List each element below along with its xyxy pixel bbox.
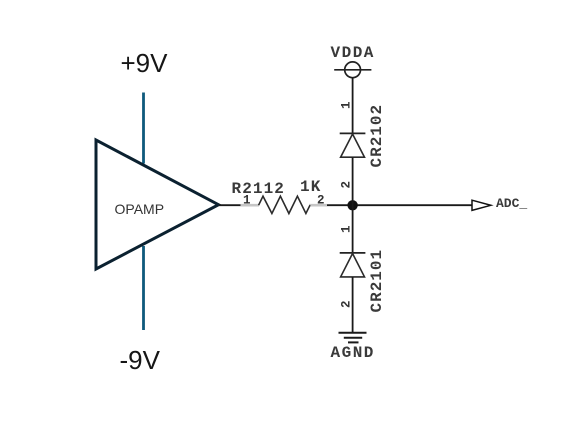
diode CR2101 pin number 1 — [340, 225, 354, 233]
op-amp U1 OPAMP — [96, 140, 219, 269]
resistor R2112 pin 2 stub — [309, 204, 327, 207]
resistor R2112 pin 1 stub — [241, 204, 260, 207]
wire node to ADC output arrow — [358, 204, 473, 206]
wire V+ supply to op-amp — [142, 93, 145, 164]
svg-text:+9V: +9V — [121, 48, 169, 78]
svg-text:1: 1 — [340, 101, 354, 109]
wire diode CR2102 anode to node — [352, 157, 354, 253]
ground symbol AGND — [339, 332, 367, 334]
diode CR2102 pin number 2 — [340, 181, 354, 189]
svg-text:2: 2 — [340, 181, 354, 189]
diode CR2102 pin number 1 — [340, 101, 354, 109]
svg-text:VDDA: VDDA — [331, 44, 375, 62]
svg-text:2: 2 — [340, 300, 354, 308]
diode CR2101 — [340, 252, 366, 254]
wire resistor R2112 pin 2 to node — [326, 204, 348, 206]
wire V- supply to op-amp — [142, 246, 145, 330]
wire diode CR2101 anode to ground — [352, 277, 354, 333]
svg-text:ADC_: ADC_ — [496, 196, 527, 211]
diode reference label CR2101 — [368, 249, 386, 313]
power symbol VDDA — [345, 62, 361, 78]
diode reference label CR2102 — [368, 104, 386, 168]
svg-text:1: 1 — [340, 225, 354, 233]
ADC output arrow — [472, 200, 491, 210]
svg-text:CR2101: CR2101 — [368, 249, 386, 313]
wire op-amp output to resistor R2112 pin 1 — [219, 204, 242, 206]
svg-text:2: 2 — [317, 194, 325, 208]
svg-text:CR2102: CR2102 — [368, 104, 386, 168]
diode CR2101 pin number 2 — [340, 300, 354, 308]
svg-text:R2112: R2112 — [232, 180, 286, 198]
diode CR2102 — [340, 132, 366, 134]
wire VDDA to diode CR2102 cathode — [352, 78, 354, 134]
svg-text:OPAMP: OPAMP — [115, 201, 165, 217]
node junction dot — [347, 200, 357, 210]
svg-text:AGND: AGND — [331, 344, 375, 362]
svg-text:1: 1 — [243, 194, 251, 208]
resistor R2112 zigzag body — [259, 196, 310, 213]
svg-text:-9V: -9V — [120, 345, 161, 375]
